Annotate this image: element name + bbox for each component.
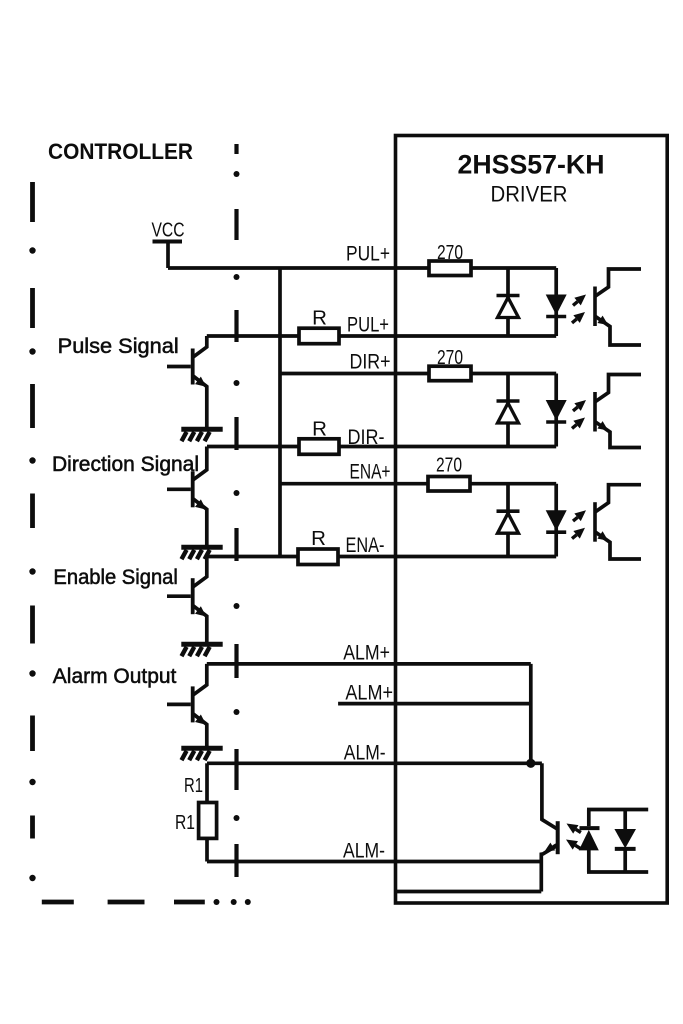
ground (Q2 emitter) xyxy=(181,547,222,559)
driver subtitle xyxy=(491,182,568,207)
resistor R (pulse) xyxy=(299,328,339,344)
wire VCC feed vertical xyxy=(278,268,282,557)
svg-text:ALM+: ALM+ xyxy=(343,642,390,665)
wire PUL- row xyxy=(207,334,556,338)
transistor Q3 (enable) xyxy=(167,557,207,645)
LED alarm (up) xyxy=(579,810,600,873)
wire R1 top lead xyxy=(205,763,209,802)
value R (direction) xyxy=(312,418,327,441)
svg-text:ENA+: ENA+ xyxy=(350,461,391,484)
controller block title xyxy=(48,139,193,164)
LED opto PUL input xyxy=(546,268,567,336)
diode alarm (down) xyxy=(614,810,636,873)
wire ALM- row 2 xyxy=(207,860,541,864)
wire VCC rail to PUL+ input xyxy=(168,266,556,270)
wire DIR- row xyxy=(207,445,556,449)
VCC supply symbol xyxy=(152,220,185,269)
resistor R (enable) xyxy=(298,549,338,565)
wire alarm vertical drop xyxy=(529,664,533,763)
svg-text:PUL+: PUL+ xyxy=(347,314,389,337)
ground (Q3 emitter) xyxy=(181,644,222,656)
value R (pulse) xyxy=(312,307,327,330)
svg-text:DIR-: DIR- xyxy=(348,426,385,449)
transistor Q2 (direction) xyxy=(167,447,207,548)
label Pulse Signal xyxy=(58,334,179,358)
light arrows (opto ALM) xyxy=(566,824,581,850)
driver box 2HSS57-KH xyxy=(396,136,668,904)
wire ENA- row xyxy=(207,555,556,559)
svg-text:Pulse Signal: Pulse Signal xyxy=(58,334,179,358)
resistor R1 xyxy=(199,803,217,839)
wire alarm collector drop xyxy=(540,763,544,821)
label PUL+ (lower) xyxy=(347,314,389,337)
label ALM+ (row 1) xyxy=(343,642,390,665)
label PUL+ (upper) xyxy=(346,243,390,266)
opto ENA phototransistor xyxy=(593,485,641,559)
svg-text:ENA-: ENA- xyxy=(346,534,385,557)
label ALM+ (row 2) xyxy=(345,682,393,705)
label DIR- xyxy=(348,426,385,449)
controller dashed border (left edge) xyxy=(29,182,35,881)
svg-text:DIR+: DIR+ xyxy=(350,351,391,374)
label Alarm Output xyxy=(53,664,177,688)
wire ALM+ row 1 xyxy=(207,662,531,666)
label R1 (lower) xyxy=(175,811,195,834)
wire LED block top rail xyxy=(587,808,648,812)
label R1 (upper) xyxy=(184,774,203,797)
ground (Q1 emitter) xyxy=(181,429,222,441)
svg-text:CONTROLLER: CONTROLLER xyxy=(48,139,193,164)
value 270 (enable) xyxy=(436,454,462,477)
label ENA+ xyxy=(350,461,391,484)
svg-text:PUL+: PUL+ xyxy=(346,243,390,266)
wire ALM+ row 2 xyxy=(338,702,531,706)
svg-text:ALM-: ALM- xyxy=(343,840,385,863)
svg-text:ALM+: ALM+ xyxy=(345,682,393,705)
svg-text:R1: R1 xyxy=(175,811,195,834)
diode DDIR (reverse protection) xyxy=(497,374,520,447)
opto DIR phototransistor xyxy=(593,375,641,448)
wire ALM- row 1 xyxy=(207,761,542,765)
svg-text:DRIVER: DRIVER xyxy=(491,182,568,207)
opto PUL phototransistor xyxy=(593,269,641,345)
label Enable Signal xyxy=(53,565,177,589)
ground (Q4 emitter) xyxy=(181,748,222,760)
label ENA- xyxy=(346,534,385,557)
node alarm junction xyxy=(526,759,535,768)
svg-text:270: 270 xyxy=(437,241,463,264)
transistor Q1 (pulse) xyxy=(167,336,207,429)
label ALM- (row 2) xyxy=(343,840,385,863)
svg-text:R: R xyxy=(312,418,327,441)
svg-text:Enable Signal: Enable Signal xyxy=(53,565,177,589)
light arrows (opto DIR) xyxy=(572,400,586,428)
label ALM- (row 1) xyxy=(344,742,386,765)
wire R1 bottom lead xyxy=(205,838,209,861)
value 270 (direction) xyxy=(437,346,463,369)
svg-text:R: R xyxy=(311,527,326,550)
svg-text:R: R xyxy=(312,307,327,330)
opto ALM output transistor xyxy=(541,820,559,892)
LED opto ENA input xyxy=(546,484,567,557)
svg-text:Alarm Output: Alarm Output xyxy=(53,664,177,688)
value R (enable) xyxy=(311,527,326,550)
light arrows (opto ENA) xyxy=(572,510,586,538)
diode DENA (reverse protection) xyxy=(497,484,520,557)
svg-text:VCC: VCC xyxy=(152,220,185,242)
svg-text:ALM-: ALM- xyxy=(344,742,386,765)
light arrows (opto PUL) xyxy=(572,295,586,323)
wire LED block bottom rail xyxy=(587,870,648,874)
resistor 270 (pulse) xyxy=(429,261,471,276)
transistor Q4 (alarm) xyxy=(167,664,207,748)
svg-text:270: 270 xyxy=(436,454,462,477)
controller dashed border (bottom edge) xyxy=(42,899,251,905)
driver title xyxy=(458,150,605,180)
diode DPUL (reverse protection) xyxy=(497,268,520,336)
svg-text:Direction Signal: Direction Signal xyxy=(52,452,199,476)
label DIR+ xyxy=(350,351,391,374)
wire alarm emitter return xyxy=(396,890,541,894)
svg-text:2HSS57-KH: 2HSS57-KH xyxy=(458,150,605,180)
wire ENA+ row xyxy=(280,482,556,486)
value 270 (pulse) xyxy=(437,241,463,264)
resistor 270 (direction) xyxy=(429,366,471,381)
resistor 270 (enable) xyxy=(428,477,470,492)
svg-text:R1: R1 xyxy=(184,774,203,797)
svg-text:270: 270 xyxy=(437,346,463,369)
label Direction Signal xyxy=(52,452,199,476)
LED opto DIR input xyxy=(546,374,567,447)
wire DIR+ row xyxy=(280,372,556,376)
controller dashed partition (right edge) xyxy=(234,144,240,877)
resistor R (direction) xyxy=(299,439,339,455)
